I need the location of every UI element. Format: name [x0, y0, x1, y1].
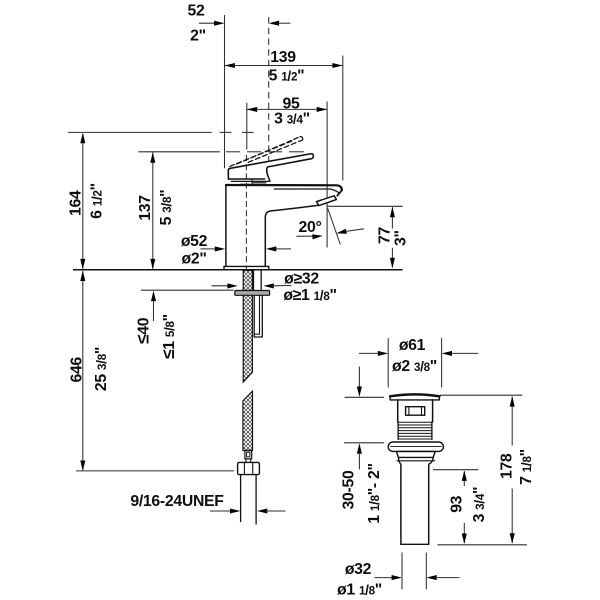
braided supply hose lower [243, 391, 253, 450]
svg-text:646: 646 [69, 357, 86, 383]
drain flange [390, 394, 439, 396]
svg-text:7 1/8": 7 1/8" [518, 449, 535, 485]
svg-text:2": 2" [190, 28, 206, 45]
extension line lever tip level [138, 151, 220, 153]
dim drain diameter 61 / 2 3/8" [359, 337, 478, 388]
dim 95 / 3 3/4" [247, 95, 327, 127]
faucet body top edge and spout [226, 185, 342, 190]
overflow slot [406, 407, 425, 416]
extension line spout right [342, 56, 344, 181]
svg-text:ø61: ø61 [399, 337, 426, 354]
svg-text:178: 178 [499, 453, 516, 479]
svg-text:3 3/4": 3 3/4" [471, 487, 488, 523]
svg-text:3": 3" [393, 230, 410, 246]
svg-text:139: 139 [270, 49, 296, 66]
svg-text:ø≥1 1/8": ø≥1 1/8" [283, 287, 336, 304]
supply tube end [241, 475, 257, 524]
dim drain pipe diameter 32 / 1 1/8" [337, 553, 460, 599]
dim 178 / 7 1/8" drain height [499, 396, 535, 543]
drain neck collar [398, 457, 433, 466]
svg-text:5 1/2": 5 1/2" [269, 67, 305, 84]
svg-text:≤40: ≤40 [133, 317, 153, 344]
threaded mounting stud [254, 270, 262, 290]
svg-text:6 1/2": 6 1/2" [88, 183, 105, 219]
centerline of faucet body dashed [245, 155, 247, 270]
extension line drain bottom [438, 544, 528, 546]
svg-text:ø52: ø52 [181, 233, 208, 250]
svg-text:52: 52 [188, 3, 205, 20]
svg-text:93: 93 [449, 495, 466, 512]
drain upper body [398, 400, 433, 422]
dim 646 / 25 3/8" [69, 271, 111, 471]
hose end collar [245, 451, 252, 459]
dim 30-50 / 1 1/8"-2" basin thickness [340, 367, 384, 524]
extension line spout outlet vertical [326, 102, 328, 248]
drain locknut [396, 451, 435, 457]
mounting washer [235, 291, 270, 296]
dim hole diameter >=32 / 1 1/8" [212, 270, 337, 304]
svg-text:77: 77 [376, 227, 393, 244]
svg-text:ø1 1/8": ø1 1/8" [337, 581, 382, 598]
drain thread section [398, 422, 432, 440]
svg-text:ø≥32: ø≥32 [284, 270, 319, 287]
base flange [224, 266, 269, 270]
aerator outlet [317, 196, 337, 206]
dim 20 degree spout angle [297, 208, 365, 244]
extension line centerline top [246, 103, 248, 150]
raised lever position dashed [230, 140, 294, 166]
svg-text:5 3/8": 5 3/8" [158, 190, 175, 226]
dim 164 / 6 1/2" [68, 133, 106, 269]
spout underside curve [265, 205, 318, 266]
extension line drain flange top right [440, 394, 522, 396]
drain gasket [388, 442, 443, 451]
dim 139 / 5 1/2" [225, 49, 343, 84]
extension line raised lever tip level [68, 131, 212, 133]
hose nut 9/16-24UNEF [238, 462, 260, 474]
drain tailpipe [401, 466, 429, 544]
dim 52 / 2" top [188, 3, 291, 45]
extension line faucet left edge [224, 15, 226, 168]
extension line hose end level [76, 470, 234, 472]
countertop deck line [73, 269, 403, 271]
dim thread 9/16-24UNEF [130, 493, 285, 514]
dim max 40 / 1 5/8" mounting thickness [133, 290, 234, 359]
extension line lever front dashed [268, 17, 270, 162]
faucet body left edge [225, 185, 227, 266]
svg-text:ø2": ø2" [181, 251, 206, 268]
dim diameter 52 / 2" base [181, 233, 291, 268]
svg-text:137: 137 [137, 195, 154, 221]
dim 137 / 5 3/8" [137, 152, 175, 269]
svg-text:ø32: ø32 [345, 561, 372, 578]
faucet lever handle [228, 154, 313, 179]
svg-text:1 1/8"- 2": 1 1/8"- 2" [366, 463, 383, 523]
svg-text:30-50: 30-50 [340, 470, 357, 509]
svg-text:20°: 20° [299, 219, 322, 236]
svg-text:ø2 3/8": ø2 3/8" [392, 358, 437, 375]
svg-text:164: 164 [68, 190, 85, 216]
cartridge neck lines [231, 180, 269, 182]
braided supply hose upper [243, 270, 252, 382]
svg-text:9/16-24UNEF: 9/16-24UNEF [130, 493, 224, 510]
svg-text:3 3/4": 3 3/4" [274, 110, 310, 127]
dim 77 / 3" spout height [327, 206, 409, 268]
dim 93 / 3 3/4" tailpipe [433, 470, 488, 544]
svg-text:25 3/8": 25 3/8" [93, 347, 110, 391]
